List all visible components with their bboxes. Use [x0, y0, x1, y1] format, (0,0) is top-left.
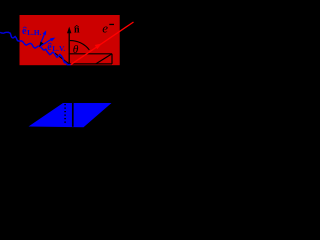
svg-text:L.V.: L.V.: [52, 44, 65, 53]
dashed vertical line in plane: [64, 104, 66, 125]
photoelectron trajectory line: [71, 22, 134, 65]
surface normal arrowhead: [67, 27, 71, 34]
polarization arrow LH (steep, blue head up-right): [40, 33, 45, 45]
sample top-face outline: top edge: [69, 53, 113, 55]
polarization arrow LH black tail head: [39, 42, 44, 47]
sample top-face outline: bottom edge: [69, 63, 113, 65]
theta arc: [70, 41, 90, 50]
solid vertical line in plane: [72, 102, 74, 127]
detection plane (blue parallelogram): [29, 103, 112, 127]
photon wavy line: [0, 32, 71, 64]
surface normal arrow shaft: [68, 31, 70, 64]
svg-text:θ: θ: [73, 44, 79, 56]
sample top-face outline: slant diagonal: [96, 54, 112, 64]
svg-text:L.H.: L.H.: [27, 28, 42, 37]
incident ray (thin black line under wave): [55, 53, 70, 64]
sample block (red box): [20, 15, 120, 65]
svg-text:e: e: [102, 21, 108, 36]
polarization arrow LV (shallow, blue head right): [41, 39, 52, 46]
photoelectron arrowhead: [95, 43, 102, 49]
sample top-face outline: right edge: [111, 54, 113, 64]
